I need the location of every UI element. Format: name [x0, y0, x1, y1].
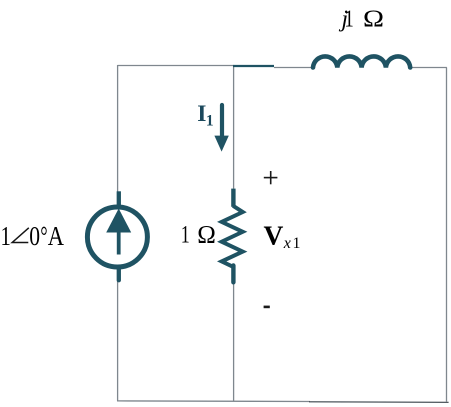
svg-text:A: A — [48, 221, 65, 251]
svg-text:1: 1 — [293, 235, 301, 252]
svg-text:Ω: Ω — [197, 222, 216, 249]
svg-text:°: ° — [40, 221, 47, 251]
svg-text:1: 1 — [206, 112, 214, 129]
svg-text:x: x — [283, 235, 291, 252]
svg-text:1: 1 — [1, 221, 11, 251]
svg-text:Ω: Ω — [363, 7, 384, 33]
svg-text:0: 0 — [29, 221, 40, 251]
svg-text:V: V — [264, 219, 284, 250]
svg-text:1: 1 — [181, 222, 190, 249]
svg-text:1: 1 — [344, 7, 353, 33]
